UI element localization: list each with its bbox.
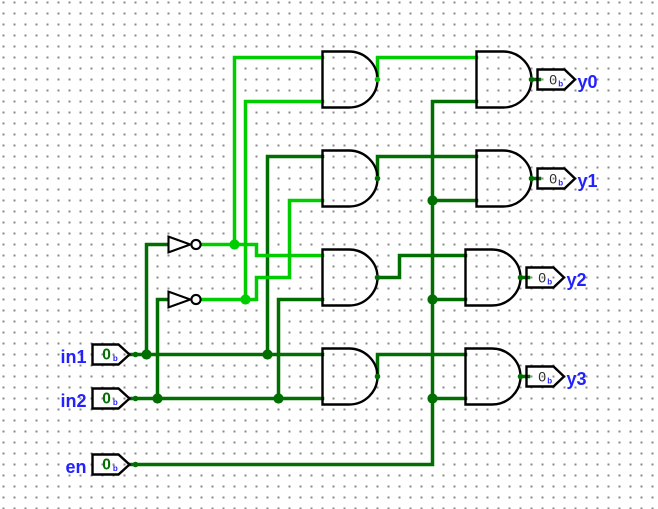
port dot AND U4 output xyxy=(375,374,381,380)
inverter U9 (NOT in1) xyxy=(169,237,201,253)
label in2 xyxy=(60,391,86,411)
junction on net in1 at x146 xyxy=(141,349,151,359)
wire net m0 from AND U1 output to AND U5 top input xyxy=(378,58,477,80)
wire stub AND U5 output to pin y0 xyxy=(532,78,540,82)
wire net not-in1 from inverter U9 output to AND U3 top input xyxy=(202,245,323,256)
svg-text:b: b xyxy=(558,178,563,187)
wire stub AND U8 output to pin y3 xyxy=(521,375,529,379)
port dot AND U7 output xyxy=(518,275,524,281)
svg-text:in1: in1 xyxy=(60,347,86,367)
port dot AND U5 output xyxy=(529,77,535,83)
port dot pin en xyxy=(133,462,139,468)
output pin y2 xyxy=(527,268,565,288)
wire net en branch to AND U7 bottom input xyxy=(433,298,466,302)
input pin in2 xyxy=(93,389,130,409)
and-gate U1 (minterm in1'.in2') xyxy=(323,52,378,108)
junction on net in2 at x278 xyxy=(273,393,283,403)
label en xyxy=(65,457,86,477)
input pin en xyxy=(93,455,130,475)
svg-text:0: 0 xyxy=(549,171,557,187)
wire net m2 from AND U3 output to AND U7 top input xyxy=(378,256,466,278)
wire net in2 branch up to inverter U10 input xyxy=(158,300,169,399)
wire net in2 horizontal from pin to AND U4 bottom input xyxy=(130,397,323,401)
wire net not-in2 branch up to AND U1 bottom input xyxy=(246,102,323,300)
label y0 xyxy=(578,72,598,92)
junction on net not-in1 at inverter U9 output xyxy=(229,239,239,249)
and-gate U7 (enable gate for y2) xyxy=(466,250,521,306)
wire stub AND U7 output to pin y2 xyxy=(521,276,529,280)
svg-text:0: 0 xyxy=(538,270,546,286)
and-gate U5 (enable gate for y0) xyxy=(477,52,532,108)
label y1 xyxy=(578,171,598,191)
svg-text:en: en xyxy=(65,457,86,477)
junction on net not-in2 at inverter U10 output xyxy=(240,294,250,304)
svg-text:b: b xyxy=(113,354,118,363)
svg-text:y1: y1 xyxy=(578,171,598,191)
svg-text:y2: y2 xyxy=(567,270,587,290)
junction on net in1 at x267 xyxy=(262,349,272,359)
port dot pin in1 xyxy=(133,352,139,358)
input pin in1 xyxy=(93,345,130,365)
svg-text:b: b xyxy=(547,277,552,286)
svg-text:0: 0 xyxy=(102,346,111,363)
svg-text:b: b xyxy=(558,79,563,88)
wire net en branch to AND U6 bottom input xyxy=(433,199,477,203)
svg-text:b: b xyxy=(547,376,552,385)
wire stub AND U6 output to pin y1 xyxy=(532,177,540,181)
and-gate U4 (minterm in1.in2) xyxy=(323,349,378,405)
output pin y1 xyxy=(538,169,576,189)
svg-text:b: b xyxy=(113,398,118,407)
wire net not-in2 from inverter U10 output to AND U2 bottom input xyxy=(202,201,323,300)
and-gate U3 (minterm in1'.in2) xyxy=(323,250,378,306)
and-gate U8 (enable gate for y3) xyxy=(466,349,521,405)
port dot AND U1 output xyxy=(375,77,381,83)
and-gate U6 (enable gate for y1) xyxy=(477,151,532,207)
label in1 xyxy=(60,347,86,367)
wire net in1 branch up to AND U2 top input xyxy=(268,157,323,355)
junction on net in2 at x157 xyxy=(152,393,162,403)
wire net in2 branch up to AND U3 bottom input xyxy=(279,300,323,399)
svg-text:y3: y3 xyxy=(567,369,587,389)
junction on net en at row of U7 input xyxy=(427,294,437,304)
svg-text:0: 0 xyxy=(102,390,111,407)
port dot pin in2 xyxy=(133,396,139,402)
port dot AND U8 output xyxy=(518,374,524,380)
svg-text:y0: y0 xyxy=(578,72,598,92)
wire net in1 branch up to inverter U9 input xyxy=(147,245,169,355)
inverter U10 (NOT in2) xyxy=(169,292,201,308)
port dot AND U3 output xyxy=(375,275,381,281)
port dot AND U6 output xyxy=(529,176,535,182)
output pin y3 xyxy=(527,367,565,387)
junction on net en at row of U8 input xyxy=(427,393,437,403)
wire net in1 horizontal from pin to AND U4 top input xyxy=(130,353,323,357)
and-gate U2 (minterm in1.in2') xyxy=(323,151,378,207)
wire net en branch to AND U8 bottom input xyxy=(433,397,466,401)
junction on net en at row of U6 input xyxy=(427,195,437,205)
wire net m1 from AND U2 output to AND U6 top input xyxy=(378,157,477,179)
svg-text:0: 0 xyxy=(538,369,546,385)
port dot AND U2 output xyxy=(375,176,381,182)
svg-text:b: b xyxy=(113,464,118,473)
svg-text:0: 0 xyxy=(549,72,557,88)
svg-text:in2: in2 xyxy=(60,391,86,411)
output pin y0 xyxy=(538,70,576,90)
wire net m3 from AND U4 output to AND U8 top input xyxy=(378,355,466,377)
wire net not-in1 branch up to AND U1 top input xyxy=(235,58,323,245)
label y2 xyxy=(567,270,587,290)
wire net en from pin along bottom and up the enable bus xyxy=(130,102,477,465)
label y3 xyxy=(567,369,587,389)
svg-text:0: 0 xyxy=(102,456,111,473)
